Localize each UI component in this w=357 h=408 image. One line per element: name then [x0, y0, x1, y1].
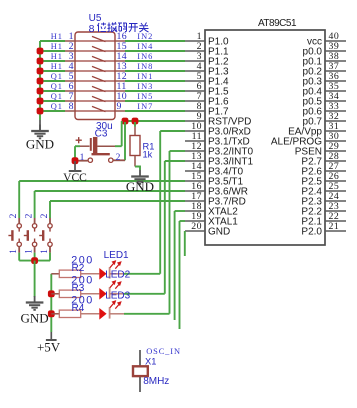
switch U5 : 8-bit DIP switch body: [75, 32, 115, 120]
junction: [37, 68, 44, 75]
IC pin 39 stub: [325, 50, 346, 52]
switch row 7 lever: [92, 96, 106, 101]
IC pin 38 stub: [325, 60, 346, 62]
LED arrows: [110, 302, 115, 308]
svg-text:LED1: LED1: [104, 250, 129, 261]
svg-text:1: 1: [80, 153, 85, 163]
button top stub: [34, 218, 36, 224]
IC pin 3 stub: [185, 60, 205, 62]
ground (DIP bus): [31, 125, 49, 139]
LED arrows: [110, 282, 115, 288]
junction: [31, 257, 38, 264]
wire pin18: [175, 210, 185, 212]
LED cathode stub: [110, 313, 124, 315]
U5 right pin stub: [115, 70, 125, 72]
IC pin 9 stub: [185, 120, 205, 122]
wire pin10 vertical: [159, 131, 161, 274]
wire: [40, 50, 65, 52]
wire pin17 vertical: [49, 201, 51, 218]
wire: [40, 100, 65, 102]
IC pin 2 stub: [185, 50, 205, 52]
wire pin17: [50, 200, 185, 202]
button top stub: [49, 218, 51, 224]
svg-text:21: 21: [329, 221, 340, 232]
LED cathode bar: [109, 287, 111, 298]
svg-text:C3: C3: [95, 129, 108, 140]
wire pin19 vertical: [179, 221, 181, 329]
svg-text:IN2: IN2: [137, 32, 153, 41]
power +5V: [50, 332, 52, 340]
wire pin19: [180, 220, 186, 222]
switch push button 2: [32, 224, 36, 228]
junction node RST b: [132, 118, 139, 125]
switch row 4 lever: [92, 66, 106, 71]
switch row 1 lever: [92, 36, 106, 41]
svg-text:Q1: Q1: [51, 102, 63, 111]
IC pin 18 stub: [185, 210, 205, 212]
U5 right pin stub: [115, 40, 125, 42]
resistor R4 200: [51, 313, 59, 315]
switch row 8 lever: [92, 106, 106, 111]
svg-text:2: 2: [40, 213, 50, 218]
wire: [125, 100, 185, 102]
wire: [40, 110, 65, 112]
switch S? reset button: [92, 153, 110, 155]
wire: [135, 167, 140, 171]
junction: [37, 58, 44, 65]
wire: [34, 253, 36, 261]
switch row 6 contact line: [75, 90, 115, 92]
wire: [40, 40, 65, 42]
wire: [125, 50, 185, 52]
svg-text:LED3: LED3: [105, 291, 130, 302]
svg-text:1: 1: [40, 249, 50, 254]
svg-text:9: 9: [117, 101, 122, 112]
wire: [49, 253, 51, 261]
junction: [37, 88, 44, 95]
svg-text:IN7: IN7: [137, 102, 153, 111]
wire to gnd: [34, 261, 36, 297]
IC pin 1 stub: [185, 40, 205, 42]
button bottom stub: [18, 247, 20, 253]
wire: [40, 90, 65, 92]
U5 right pin stub: [115, 90, 125, 92]
switch row 2 contact line: [75, 50, 115, 52]
junction: [37, 48, 44, 55]
U5 left pin 6 stub: [65, 90, 75, 92]
svg-text:R2: R2: [72, 263, 85, 274]
wire pin15 vertical: [18, 181, 20, 218]
svg-text:2: 2: [116, 153, 121, 163]
IC pin 5 stub: [185, 80, 205, 82]
wire pin10: [160, 130, 185, 132]
IC pin 4 stub: [185, 70, 205, 72]
junction: [48, 290, 55, 297]
wire pin13: [165, 160, 185, 162]
button bottom stub: [34, 247, 36, 253]
button top stub: [18, 218, 20, 224]
IC pin 30 stub: [325, 140, 346, 142]
U5 left pin 8 stub: [65, 110, 75, 112]
svg-text:H1: H1: [51, 42, 63, 51]
LED cathode stub: [110, 293, 124, 295]
svg-text:VCC: VCC: [63, 172, 87, 184]
IC pin 34 stub: [325, 100, 346, 102]
svg-text:GND: GND: [208, 227, 230, 238]
wire pin13 vertical: [164, 161, 166, 294]
wire: [124, 313, 170, 315]
wire: [125, 80, 185, 82]
wire pin15: [19, 180, 185, 182]
wire RST to pin9: [125, 120, 185, 122]
resistor R3 200: [51, 293, 59, 295]
IC pin 24 stub: [325, 200, 346, 202]
svg-text:+5V: +5V: [37, 340, 61, 355]
wire: [75, 145, 80, 147]
IC pin 28 stub: [325, 160, 346, 162]
LED D1: [99, 268, 106, 280]
wire: [74, 146, 76, 161]
IC pin 21 stub: [325, 230, 346, 232]
IC pin 6 stub: [185, 90, 205, 92]
LED D2: [99, 288, 106, 300]
wire: [115, 145, 122, 147]
switch row 2 lever: [92, 46, 106, 51]
IC pin 33 stub: [325, 110, 346, 112]
capacitor C3 30u electrolytic: [80, 145, 90, 147]
IC pin 29 stub: [325, 150, 346, 152]
U5 left pin 7 stub: [65, 100, 75, 102]
svg-text:AT89C51: AT89C51: [258, 18, 297, 29]
IC pin 14 stub: [185, 170, 205, 172]
wire: [40, 80, 65, 82]
IC pin 15 stub: [185, 180, 205, 182]
LED arrows: [110, 262, 115, 268]
svg-text:GND: GND: [26, 137, 54, 152]
IC pin 11 stub: [185, 140, 205, 142]
svg-text:IN6: IN6: [137, 52, 153, 61]
button pin2 stub: [113, 159, 125, 161]
svg-text:GND: GND: [126, 179, 154, 194]
junction: [37, 78, 44, 85]
svg-text:GND: GND: [21, 310, 49, 325]
svg-text:R3: R3: [72, 283, 85, 294]
wire: [125, 110, 185, 112]
IC pin 40 stub: [325, 40, 346, 42]
svg-text:8: 8: [69, 101, 74, 112]
IC pin 23 stub: [325, 210, 346, 212]
U5 left pin 2 stub: [65, 50, 75, 52]
junction: [37, 108, 44, 115]
U5 left pin 5 stub: [65, 80, 75, 82]
wire pin18 vertical: [174, 211, 176, 320]
U5 right pin stub: [115, 80, 125, 82]
switch row 3 lever: [92, 56, 106, 61]
U5 right pin stub: [115, 110, 125, 112]
U5 right pin stub: [115, 50, 125, 52]
resistor R1 1k: [134, 122, 136, 127]
switch push button 1: [17, 224, 21, 228]
switch row 1 contact line: [75, 40, 115, 42]
IC pin 7 stub: [185, 100, 205, 102]
wire: [125, 90, 185, 92]
ground (buttons): [26, 296, 44, 310]
svg-text:IN4: IN4: [137, 42, 153, 51]
svg-text:IN8: IN8: [137, 62, 153, 71]
wire left GND bus: [39, 41, 41, 120]
svg-text:2: 2: [9, 213, 19, 218]
wire +5V bus: [50, 274, 52, 332]
svg-text:20: 20: [191, 221, 202, 232]
svg-text:8: 8: [89, 23, 95, 35]
wire button gnd bus: [19, 260, 50, 262]
label 8-bit DIP switch (Chinese): [89, 22, 149, 35]
crystal X1 8MHz: [139, 350, 141, 366]
IC pin 10 stub: [185, 130, 205, 132]
IC pin 19 stub: [185, 220, 205, 222]
IC pin 26 stub: [325, 180, 346, 182]
IC pin 36 stub: [325, 80, 346, 82]
switch row 8 contact line: [75, 110, 115, 112]
U5 left pin 1 stub: [65, 40, 75, 42]
svg-text:H1: H1: [51, 62, 63, 71]
switch row 7 contact line: [75, 100, 115, 102]
svg-text:P2.0: P2.0: [301, 227, 322, 238]
wire: [40, 70, 65, 72]
IC pin 25 stub: [325, 190, 346, 192]
svg-text:1k: 1k: [143, 150, 153, 160]
svg-text:H1: H1: [51, 52, 63, 61]
svg-text:IN3: IN3: [137, 82, 153, 91]
wire: [40, 60, 65, 62]
svg-text:Q1: Q1: [51, 82, 63, 91]
svg-text:X1: X1: [145, 356, 156, 366]
switch row 4 contact line: [75, 70, 115, 72]
IC pin 17 stub: [185, 200, 205, 202]
power VCC: [74, 161, 76, 171]
svg-text:1: 1: [24, 249, 34, 254]
wire: [125, 40, 185, 42]
IC pin 16 stub: [185, 190, 205, 192]
switch row 3 contact line: [75, 60, 115, 62]
resistor R2 200: [51, 273, 59, 275]
switch push button 3: [48, 224, 52, 228]
IC pin 27 stub: [325, 170, 346, 172]
IC pin 37 stub: [325, 70, 346, 72]
wire to button pin2: [124, 122, 126, 160]
junction node RST a: [122, 118, 129, 125]
junction: [48, 310, 55, 317]
svg-text:IN5: IN5: [137, 92, 153, 101]
IC pin 13 stub: [185, 160, 205, 162]
op-amp U? : AT89C51 IC body: [205, 30, 325, 245]
IC pin 31 stub: [325, 130, 346, 132]
LED cathode stub: [110, 273, 124, 275]
U5 left pin 3 stub: [65, 60, 75, 62]
IC pin 20 stub: [185, 230, 205, 232]
wire pin12 vertical: [169, 151, 171, 314]
LED D3: [99, 308, 106, 320]
button bottom stub: [49, 247, 51, 253]
U5 left pin 4 stub: [65, 70, 75, 72]
wire: [124, 273, 160, 275]
IC pin 22 stub: [325, 220, 346, 222]
svg-text:1: 1: [9, 249, 19, 254]
plus sign: [76, 137, 82, 143]
wire to C3: [121, 121, 123, 146]
svg-text:OSC_IN: OSC_IN: [146, 347, 181, 356]
svg-text:R4: R4: [72, 303, 85, 314]
wire: [125, 70, 185, 72]
svg-text:8MHz: 8MHz: [143, 376, 169, 387]
ground (R1): [131, 170, 149, 184]
svg-text:Q1: Q1: [51, 72, 63, 81]
button pin1 stub: [76, 160, 88, 162]
wire: [125, 60, 185, 62]
junction: [37, 98, 44, 105]
junction VCC node: [72, 157, 79, 164]
wire: [124, 293, 165, 295]
LED cathode bar: [109, 307, 111, 318]
IC pin 35 stub: [325, 90, 346, 92]
IC pin 32 stub: [325, 120, 346, 122]
svg-text:LED2: LED2: [105, 270, 130, 281]
wire pin16 vertical: [34, 191, 36, 218]
LED cathode bar: [109, 267, 111, 278]
gnd stem: [39, 120, 41, 131]
U5 right pin stub: [115, 100, 125, 102]
IC pin 8 stub: [185, 110, 205, 112]
U5 right pin stub: [115, 60, 125, 62]
svg-text:H1: H1: [51, 32, 63, 41]
svg-text:Q1: Q1: [51, 92, 63, 101]
switch row 5 contact line: [75, 80, 115, 82]
svg-text:2: 2: [24, 213, 34, 218]
switch row 6 lever: [92, 86, 106, 91]
IC pin 12 stub: [185, 150, 205, 152]
wire: [18, 253, 20, 261]
switch row 5 lever: [92, 76, 106, 81]
wire pin12: [170, 150, 186, 152]
wire pin16: [35, 190, 185, 192]
svg-text:IN1: IN1: [137, 72, 153, 81]
wire pin20 vertical: [184, 231, 186, 256]
